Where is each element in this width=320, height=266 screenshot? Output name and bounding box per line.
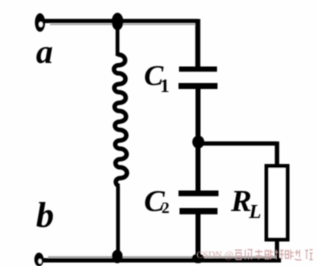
wire: junction to RL branch horizontal [198,141,277,145]
wire: top corner down to C1 [195,19,200,67]
wire: junction down to coil [116,22,120,56]
node junction dot (coil / bus) [112,250,123,264]
svg-text:L: L [248,201,261,223]
node A junction dot (top) [112,13,124,31]
svg-text:2: 2 [162,200,170,217]
wire: coil bottom to bus [116,186,120,258]
node B junction dot (middle) [192,136,204,149]
capacitor C1 plates [179,67,218,90]
svg-text:a: a [36,34,53,71]
svg-text:b: b [36,195,54,235]
fake CJK watermark glyphs [235,250,242,259]
wire: junction down to C2 [196,145,201,191]
node junction dot (C2 / bus) [192,254,205,264]
resistor RL box [267,166,288,240]
wire bottom bus [40,258,281,262]
wire: RL bottom to bus [275,239,279,259]
terminal a [35,13,45,32]
wire shadow under top wire [50,23,196,25]
wire top: a terminal to corner [44,19,198,23]
wire: C1 to middle junction [196,88,201,140]
wire: RL branch corner down [275,142,279,167]
capacitor C2 plates [179,191,219,215]
svg-text:1: 1 [160,76,170,97]
wire shadow above bus [48,256,276,258]
terminal b [34,253,43,266]
wire: C2 to bus [196,214,201,258]
watermark CSDN [197,249,313,261]
svg-text:CSDN @: CSDN @ [197,250,234,261]
inductor L coil [114,55,127,187]
